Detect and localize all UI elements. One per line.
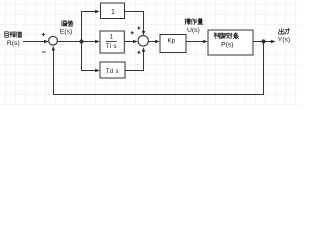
svg-text:Kp: Kp [167,38,175,45]
block: proportional gain "1" [101,3,125,19]
svg-text:Y(s): Y(s) [278,36,290,43]
label: 偏差 E(s) error [60,20,73,35]
wire: branch up to P block [82,10,100,42]
block: integral 1/(Ti s) [100,31,124,53]
plus sign at S2 bottom input [137,51,140,54]
plus sign at S2 left input [131,31,134,34]
label: 操作量 U(s) manipulated variable [185,19,203,34]
wire: Kp block to plant P(s), carries U(s) [186,40,207,43]
svg-text:Ti s: Ti s [106,43,117,50]
svg-text:1: 1 [111,9,115,16]
svg-text:1: 1 [110,34,114,41]
block: gain Kp [160,35,186,53]
svg-text:P(s): P(s) [221,41,233,48]
summing junction S1 [49,36,58,45]
svg-text:U(s): U(s) [187,27,200,34]
wire: R(s) input to summing junction S1 [23,40,49,43]
label: 出力 Y(s) output [278,29,290,44]
block: derivative Td s [100,62,125,78]
wire: summing junction S2 to Kp block [148,40,159,43]
svg-text:E(s): E(s) [60,29,72,36]
svg-text:R(s): R(s) [7,40,20,47]
node B: output branch dot on Y(s) wire [253,39,275,43]
wire: D block output to summing junction S2 bottom [125,47,145,70]
background grid [0,0,300,105]
plus sign at S2 top input [137,26,140,29]
svg-text:Td s: Td s [106,68,119,75]
summing junction S2 [138,36,148,46]
wire: feedback loop from node B to summing junction S1 [52,42,264,95]
node A: error branch dot on E(s) wire [58,39,100,43]
wire: I block output to summing junction S2 left [124,40,137,43]
wire: branch down to D block [82,42,100,73]
plus sign at S1 input [42,33,45,36]
block: plant 制御対象 P(s) [208,30,253,55]
label: 目標値 R(s) target value [5,32,22,47]
minus sign at S1 feedback input [42,51,45,53]
wire: P block output to summing junction S2 top [125,12,145,36]
